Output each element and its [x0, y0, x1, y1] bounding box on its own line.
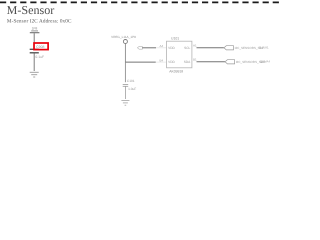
svg-text:12/A/A4: 12/A/A4	[260, 60, 271, 64]
wire SDA	[197, 61, 226, 63]
wire	[124, 44, 126, 63]
net flag SDA	[225, 60, 235, 64]
wire (VDD branch)	[125, 61, 155, 63]
wire	[124, 87, 126, 100]
port flag (upper pin)	[137, 46, 142, 49]
power terminal circle	[123, 40, 127, 44]
power symbol 1P8 (left rail)	[30, 26, 40, 32]
svg-text:1P8: 1P8	[32, 26, 38, 30]
net flag SCL	[224, 46, 234, 50]
svg-text:A4: A4	[160, 44, 164, 48]
svg-text:SDA: SDA	[184, 60, 191, 64]
wire SCL	[197, 47, 224, 49]
ground	[121, 100, 129, 105]
wire	[124, 62, 126, 82]
pin stub	[156, 47, 167, 49]
ground	[30, 72, 39, 77]
capacitor C908	[30, 45, 45, 59]
svg-text:M-Sensor: M-Sensor	[7, 3, 55, 17]
svg-text:M-Sensor I2C Address: 0x0C: M-Sensor I2C Address: 0x0C	[7, 18, 72, 24]
svg-text:VREG_L11A_1P8: VREG_L11A_1P8	[111, 35, 136, 39]
block border (dashed top edge of schematic room)	[0, 1, 282, 3]
wire	[142, 47, 156, 49]
pin stub	[156, 61, 167, 63]
op IC U101 box	[167, 41, 192, 68]
svg-text:U101: U101	[171, 37, 179, 41]
svg-text:A1: A1	[193, 43, 197, 47]
svg-text:VDD: VDD	[168, 46, 175, 50]
svg-text:B4: B4	[160, 58, 164, 62]
svg-text:SCL: SCL	[184, 46, 190, 50]
highlight box (red)	[34, 43, 48, 50]
svg-text:11/A/A1: 11/A/A1	[259, 46, 269, 50]
wire	[33, 53, 35, 71]
wire	[33, 33, 35, 49]
capacitor C101	[123, 79, 137, 91]
svg-text:0.1uF: 0.1uF	[35, 55, 44, 59]
svg-text:C908: C908	[36, 45, 44, 49]
svg-text:C101: C101	[127, 79, 135, 83]
svg-text:1.0uF: 1.0uF	[128, 87, 136, 91]
svg-text:AK09918: AK09918	[169, 70, 183, 74]
svg-text:VDD: VDD	[168, 60, 175, 64]
svg-text:B1: B1	[193, 57, 197, 61]
